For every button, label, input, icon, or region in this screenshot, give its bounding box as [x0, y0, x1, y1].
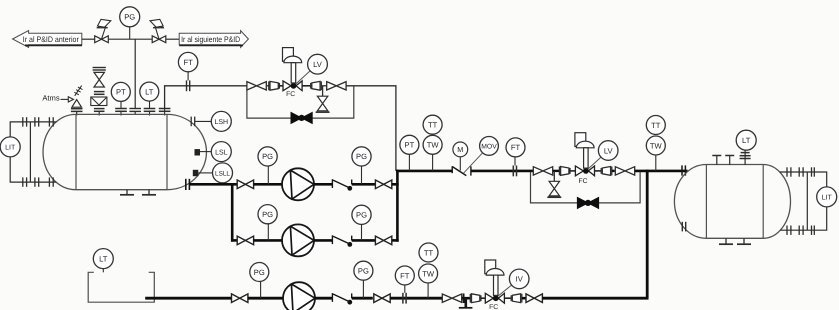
wire — [612, 170, 615, 172]
svg-text:FC: FC — [489, 304, 498, 310]
block valve upstream — [533, 167, 552, 175]
wire — [352, 183, 376, 186]
pressure transmitter PT — [111, 82, 130, 115]
flanges upper tap (right) — [787, 167, 814, 176]
wire: drop leg to bottom line (thick) — [646, 170, 649, 299]
svg-text:FC: FC — [286, 91, 295, 98]
flange on drop nozzle — [129, 109, 141, 112]
pump3 suction valve — [232, 294, 248, 303]
wire — [352, 239, 376, 242]
svg-text:FT: FT — [183, 58, 193, 67]
reducer upstream — [559, 167, 570, 176]
svg-text:LV: LV — [604, 146, 614, 155]
pressure gauge PG (pump3 discharge) — [354, 261, 373, 298]
level indicating transmitter LIT — [0, 137, 20, 157]
wire past drain tee — [321, 85, 326, 87]
svg-text:Ir al siguiente P&ID: Ir al siguiente P&ID — [181, 35, 240, 44]
wire — [504, 297, 511, 299]
wire over drain tee (thick) — [553, 170, 560, 172]
wire (thick) — [471, 170, 534, 173]
bypass globe valve (closed, filled) — [291, 112, 312, 123]
svg-text:FT: FT — [400, 271, 410, 280]
pressure transmitter PT — [400, 135, 419, 171]
wire — [595, 170, 602, 172]
level transmitter LT — [140, 82, 159, 115]
LV instrument bubble (2) — [588, 141, 618, 169]
wire: to drop leg — [346, 86, 396, 171]
reducer downstream — [311, 81, 322, 90]
wire — [392, 239, 399, 242]
drain valve under tee — [547, 171, 561, 197]
wire: drop from header to vessel V-1 — [134, 39, 136, 108]
svg-text:TT: TT — [424, 248, 434, 257]
level switch high LSH — [191, 111, 231, 131]
svg-text:TT: TT — [428, 121, 438, 130]
pressure gauge PG (pump2 discharge) — [352, 205, 371, 240]
off-page connector: Ir al siguiente P&ID — [179, 31, 248, 48]
svg-text:PT: PT — [405, 141, 415, 150]
svg-text:PT: PT — [116, 88, 126, 97]
MOV bubble — [463, 137, 498, 174]
wire — [266, 85, 269, 87]
level indicating transmitter LIT (right) — [817, 187, 837, 207]
check valve pump3 — [332, 293, 352, 305]
IV diaphragm actuator — [485, 260, 504, 295]
off-page connector: Ir al P&ID anterior — [13, 31, 82, 48]
level switch low-low LSLL — [193, 163, 233, 183]
wire — [314, 183, 332, 186]
level transmitter LT (V-2) — [736, 130, 756, 165]
pump2 discharge valve — [375, 236, 391, 245]
pump P-1 — [282, 168, 314, 200]
hand valve on vent header (left, actuated) — [95, 19, 111, 42]
level control valve LV body (2) — [575, 166, 594, 176]
svg-text:LIT: LIT — [822, 195, 833, 202]
svg-text:PG: PG — [358, 267, 369, 276]
pressure gauge PG (pump1 discharge) — [352, 147, 371, 185]
check valve pump1 — [332, 179, 352, 191]
LV diaphragm actuator (2) — [575, 133, 594, 168]
wire — [315, 297, 332, 300]
svg-text:LV: LV — [313, 60, 323, 69]
wire: lower tap — [780, 207, 827, 230]
reducer downstream (IV station) — [511, 294, 522, 303]
motor operated valve body — [452, 166, 471, 175]
level switch low LSL — [195, 142, 232, 162]
orifice plate FT (bottom line) — [403, 293, 406, 304]
svg-text:LT: LT — [145, 87, 154, 96]
wire: valve to banner — [166, 38, 179, 40]
LV instrument bubble — [296, 54, 328, 84]
svg-text:Atms: Atms — [42, 93, 60, 102]
wire: main line (thick) — [396, 170, 453, 173]
wire: to vessel V-2 (thick) — [635, 170, 688, 173]
pump P-2 — [282, 224, 314, 256]
svg-text:PG: PG — [262, 210, 273, 219]
orifice plate FT (main line) — [513, 166, 516, 177]
drain stub below tee — [459, 298, 473, 308]
svg-text:TW: TW — [427, 141, 440, 150]
relief valve PSV to atmosphere — [72, 86, 83, 108]
temperature element TT over TW (right) — [646, 116, 665, 171]
block valve downstream — [615, 167, 634, 175]
svg-text:IV: IV — [516, 275, 524, 284]
svg-text:MOV: MOV — [481, 144, 497, 151]
block valve (bottom line) — [442, 294, 461, 302]
level control valve LV body — [283, 81, 302, 91]
vessel V-2 top nozzle 2 — [725, 156, 734, 166]
svg-text:LSLL: LSLL — [215, 171, 230, 178]
svg-text:LSL: LSL — [215, 149, 228, 156]
boxed valve figure — [91, 97, 107, 106]
standpipe (right) — [806, 172, 808, 230]
flanges lower tap (right) — [787, 226, 814, 235]
svg-text:LT: LT — [99, 254, 108, 263]
vessel V-2 top nozzle 1 — [712, 156, 721, 166]
control valve IV body — [485, 293, 504, 303]
svg-text:PG: PG — [124, 13, 135, 22]
spec break flange — [463, 294, 465, 304]
pressure gauge PG (pump3 suction) — [250, 263, 269, 299]
wire — [314, 239, 332, 242]
svg-text:PG: PG — [356, 211, 367, 220]
pressure gauge PG (top) — [120, 7, 140, 39]
wire — [254, 239, 283, 242]
svg-text:PG: PG — [254, 268, 265, 277]
vessel V-2 lower left nozzle — [682, 222, 685, 232]
wire — [392, 183, 399, 186]
vessel V-2 left seam — [705, 165, 707, 239]
pump2 suction valve — [237, 236, 253, 245]
vessel V-1 bottom drain 1 — [120, 190, 134, 195]
vessel V-1 shell — [43, 114, 206, 189]
flow transmitter FT (main line) — [506, 138, 525, 166]
wire: to drop leg (thick) — [542, 297, 648, 300]
suction header down — [231, 183, 234, 242]
drain valve under tee — [316, 86, 330, 112]
vessel V-2 bottom drain 2 — [737, 238, 751, 244]
block valve downstream — [327, 82, 346, 90]
svg-text:TW: TW — [650, 141, 663, 150]
wire — [302, 85, 311, 87]
wire — [254, 183, 283, 186]
wire: FT tap riser and line to LV station — [165, 86, 247, 109]
pump3 discharge valve — [374, 294, 390, 303]
vent end bars — [93, 68, 106, 71]
bypass globe valve 2 (closed, filled) — [577, 197, 598, 208]
wire: sump suction (thick) — [145, 297, 231, 300]
motor M bubble — [453, 142, 468, 171]
level transmitter LT (sump) — [93, 249, 113, 273]
svg-text:FT: FT — [511, 143, 521, 152]
svg-text:PG: PG — [356, 152, 367, 161]
vessel V-1 bottom drain 2 — [142, 190, 156, 195]
bypass wire around LV — [247, 86, 354, 118]
wire: atms arrow — [61, 97, 74, 102]
wire: upper tap — [780, 172, 827, 187]
flow transmitter FT (bottom line) — [395, 266, 414, 293]
FT tap nozzle with flange — [159, 109, 171, 116]
wire — [248, 297, 283, 300]
flanges upper tap — [23, 117, 53, 126]
reducer upstream — [269, 81, 280, 90]
wire — [522, 297, 526, 300]
svg-text:LIT: LIT — [5, 145, 16, 152]
suction nozzle flange — [186, 179, 190, 190]
svg-text:PG: PG — [262, 152, 273, 161]
svg-text:LSH: LSH — [214, 119, 228, 126]
wire: lower tap — [10, 157, 56, 183]
temperature element TT over TW — [423, 115, 442, 171]
pressure gauge PG (pump2 suction) — [258, 205, 277, 241]
wire — [352, 297, 373, 300]
vessel V-1 right seam — [166, 114, 168, 189]
svg-text:TW: TW — [422, 269, 435, 278]
wire: valve to valve — [108, 38, 152, 40]
wire: pump 1 suction (thick) — [189, 183, 237, 186]
wire — [279, 85, 283, 87]
pump P-3 — [283, 282, 315, 310]
svg-text:FC: FC — [578, 178, 587, 185]
discharge header — [396, 170, 399, 242]
hand valve on vent header (right, actuated) — [150, 19, 166, 42]
wire: upper tap — [10, 122, 56, 137]
orifice plate (FT) — [187, 80, 190, 91]
flange under PSV — [71, 109, 83, 112]
flange — [94, 92, 105, 95]
vessel V-2 right seam — [762, 165, 764, 239]
block valve downstream (IV station) — [526, 294, 542, 303]
standpipe — [29, 122, 31, 182]
svg-text:M: M — [457, 145, 463, 154]
vessel V-2 shell — [674, 165, 790, 239]
vessel V-2 inlet flange — [682, 165, 685, 175]
wire — [462, 297, 471, 300]
flanges lower tap — [23, 177, 53, 186]
reducer upstream (IV station) — [470, 294, 481, 303]
PSV nozzle stub — [76, 111, 78, 115]
svg-text:LT: LT — [742, 136, 751, 145]
reducer downstream — [601, 167, 612, 176]
pump1 discharge valve — [375, 180, 391, 189]
vent nozzle stub — [98, 111, 100, 115]
svg-text:Ir al P&ID anterior: Ir al P&ID anterior — [23, 35, 79, 44]
IV instrument bubble — [498, 269, 529, 296]
pump1 suction valve — [237, 180, 253, 189]
svg-text:TT: TT — [651, 121, 661, 130]
wire: pump 2 suction (thick) — [231, 239, 238, 242]
flange — [94, 109, 105, 112]
LV diaphragm actuator — [283, 48, 302, 83]
flow transmitter FT — [178, 52, 197, 80]
wire — [570, 170, 578, 172]
check valve pump2 — [332, 235, 352, 247]
vessel V-2 bottom drain 1 — [719, 238, 733, 244]
wire — [390, 297, 443, 300]
wire: banner to valve — [82, 38, 95, 40]
bypass wire around LV 2 — [531, 172, 641, 203]
pressure gauge PG (pump1 suction) — [258, 147, 277, 185]
temperature element TT over TW (bottom line) — [419, 243, 438, 298]
vessel V-1 left seam — [75, 114, 77, 189]
wire — [481, 297, 489, 299]
vertical gate valve (vent) — [94, 72, 104, 87]
block valve upstream — [247, 82, 266, 90]
open sump — [88, 272, 154, 302]
